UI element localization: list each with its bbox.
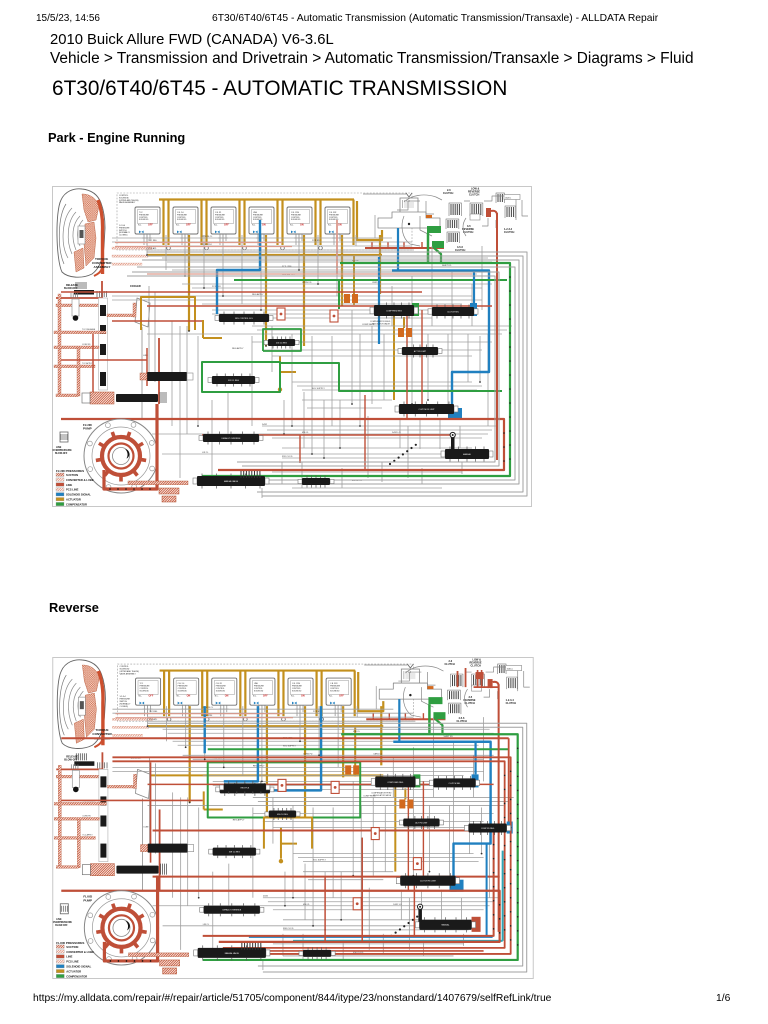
svg-text:ACT FD LIMIT: ACT FD LIMIT bbox=[414, 349, 427, 352]
svg-text:SOLENOID SIGNAL: SOLENOID SIGNAL bbox=[66, 965, 91, 969]
svg-text:CLUTCH: CLUTCH bbox=[444, 663, 454, 666]
svg-text:SOL SUPPLY: SOL SUPPLY bbox=[283, 745, 296, 747]
svg-text:CLUTCH FD LIMIT: CLUTCH FD LIMIT bbox=[418, 408, 435, 410]
svg-text:N.L.: N.L. bbox=[253, 696, 257, 698]
svg-text:CONVERTER & LUBE: CONVERTER & LUBE bbox=[66, 477, 94, 481]
svg-text:ON: ON bbox=[262, 223, 266, 226]
svg-text:MANUAL: MANUAL bbox=[463, 452, 471, 455]
svg-text:OVERPRESSURE: OVERPRESSURE bbox=[53, 450, 73, 452]
svg-text:SOLENOID: SOLENOID bbox=[291, 219, 301, 221]
svg-text:TCC APL: TCC APL bbox=[148, 247, 158, 250]
svg-text:SOL SUPPLY: SOL SUPPLY bbox=[312, 388, 325, 390]
svg-text:456 CL: 456 CL bbox=[302, 432, 310, 434]
svg-text:PCS LINE: PCS LINE bbox=[66, 960, 79, 964]
svg-text:PUMP: PUMP bbox=[83, 898, 92, 902]
svg-text:SOLENOID: SOLENOID bbox=[139, 219, 149, 221]
svg-text:SOLENOID: SOLENOID bbox=[215, 219, 225, 221]
svg-text:D432: D432 bbox=[262, 424, 268, 426]
svg-text:SOLENOID: SOLENOID bbox=[254, 690, 264, 692]
svg-text:N.L.: N.L. bbox=[291, 696, 295, 698]
svg-text:LINE: LINE bbox=[66, 955, 72, 959]
svg-text:N.L.: N.L. bbox=[138, 224, 142, 226]
svg-text:N.L.: N.L. bbox=[328, 224, 332, 226]
svg-text:CLOSED): CLOSED) bbox=[119, 706, 128, 708]
svg-text:CLUTCH FD LIMIT: CLUTCH FD LIMIT bbox=[420, 881, 437, 883]
svg-text:COMP FEED REG: COMP FEED REG bbox=[386, 310, 402, 312]
svg-text:BLOW-OFF: BLOW-OFF bbox=[55, 925, 68, 927]
svg-text:MANUAL VALVE: MANUAL VALVE bbox=[225, 952, 240, 955]
svg-text:TCC APL: TCC APL bbox=[149, 718, 159, 721]
svg-text:VALVE ASSEMBLY: VALVE ASSEMBLY bbox=[119, 201, 136, 204]
svg-text:N.L.: N.L. bbox=[214, 224, 218, 226]
svg-text:N.L.: N.L. bbox=[252, 224, 256, 226]
svg-text:SUCTION: SUCTION bbox=[66, 473, 78, 477]
svg-text:L/R CL: L/R CL bbox=[202, 452, 209, 454]
svg-text:SOLENOID: SOLENOID bbox=[178, 690, 188, 692]
svg-text:COMP FD REG: COMP FD REG bbox=[481, 828, 495, 830]
svg-text:CLUTCH: CLUTCH bbox=[504, 231, 514, 234]
svg-text:N.L.: N.L. bbox=[290, 224, 294, 226]
svg-text:REV CONTROL SOL: REV CONTROL SOL bbox=[235, 317, 253, 319]
svg-text:456 CL: 456 CL bbox=[303, 904, 311, 906]
svg-text:CONV FD: CONV FD bbox=[302, 282, 312, 284]
svg-text:N.L.: N.L. bbox=[329, 696, 333, 698]
svg-text:PCS LINE: PCS LINE bbox=[66, 487, 79, 491]
svg-text:L/R CL: L/R CL bbox=[203, 924, 210, 926]
svg-text:D432: D432 bbox=[263, 896, 269, 898]
svg-text:TCC REL: TCC REL bbox=[149, 711, 159, 713]
svg-text:VALVE ASSEMBLY: VALVE ASSEMBLY bbox=[119, 672, 136, 675]
svg-text:REGULATOR VALVE: REGULATOR VALVE bbox=[372, 322, 391, 325]
svg-text:MANUAL VALVE: MANUAL VALVE bbox=[224, 479, 239, 482]
svg-text:OFF: OFF bbox=[148, 223, 153, 226]
svg-text:CLOSED): CLOSED) bbox=[119, 234, 128, 236]
svg-text:COMP FEED REG: COMP FEED REG bbox=[387, 782, 403, 784]
svg-text:CLUTCH: CLUTCH bbox=[471, 665, 481, 668]
svg-text:BLOW-OFF: BLOW-OFF bbox=[64, 758, 78, 761]
svg-text:OFF: OFF bbox=[224, 223, 229, 226]
svg-text:ON: ON bbox=[300, 223, 304, 226]
svg-text:CLUTCH: CLUTCH bbox=[443, 192, 453, 195]
svg-text:SOLENOID SIGNAL: SOLENOID SIGNAL bbox=[66, 492, 91, 496]
svg-text:COMPENSATOR: COMPENSATOR bbox=[66, 502, 87, 506]
svg-text:LINE: LINE bbox=[56, 447, 62, 449]
svg-text:ON: ON bbox=[338, 223, 342, 226]
svg-text:SOL SUPPLY: SOL SUPPLY bbox=[313, 860, 326, 862]
svg-text:CLUTCH: CLUTCH bbox=[506, 702, 516, 705]
svg-text:35R CL REG: 35R CL REG bbox=[228, 379, 239, 381]
svg-text:SUCTION: SUCTION bbox=[66, 945, 78, 949]
svg-text:TCC RELEASE: TCC RELEASE bbox=[82, 328, 96, 331]
svg-text:PCS R1: PCS R1 bbox=[312, 240, 320, 242]
svg-text:LUBE: LUBE bbox=[143, 355, 149, 357]
svg-text:PCS 1234: PCS 1234 bbox=[202, 244, 212, 246]
svg-text:SOLENOID: SOLENOID bbox=[253, 219, 263, 221]
svg-text:35R CL FD: 35R CL FD bbox=[283, 928, 294, 930]
svg-text:SOLENOID: SOLENOID bbox=[140, 690, 150, 692]
svg-text:TCC APPLY: TCC APPLY bbox=[82, 362, 93, 365]
svg-text:BLOW-OFF: BLOW-OFF bbox=[64, 287, 78, 290]
svg-text:ON: ON bbox=[225, 695, 229, 698]
svg-text:CONVERTER & LUBE: CONVERTER & LUBE bbox=[66, 950, 94, 954]
svg-text:ACT FD LIMIT: ACT FD LIMIT bbox=[415, 821, 428, 824]
svg-text:DEFAULT OVERRIDE: DEFAULT OVERRIDE bbox=[222, 436, 241, 439]
svg-text:456 CL: 456 CL bbox=[353, 731, 361, 733]
svg-text:REG APPLY: REG APPLY bbox=[252, 293, 264, 296]
svg-text:CLUTCH SEL: CLUTCH SEL bbox=[449, 783, 461, 785]
svg-text:REG PCS: REG PCS bbox=[241, 787, 250, 789]
svg-text:CLUTCH: CLUTCH bbox=[469, 193, 479, 196]
svg-text:ON: ON bbox=[187, 695, 191, 698]
svg-text:D432 LO: D432 LO bbox=[393, 904, 402, 906]
svg-text:OVERPRESSURE: OVERPRESSURE bbox=[53, 922, 73, 924]
svg-text:PCS 26 CL: PCS 26 CL bbox=[202, 236, 213, 238]
svg-text:COMPENSATOR: COMPENSATOR bbox=[66, 974, 87, 978]
svg-text:SOLENOID: SOLENOID bbox=[216, 690, 226, 692]
svg-text:COOLER: COOLER bbox=[130, 285, 141, 288]
svg-text:TCC REL: TCC REL bbox=[148, 240, 158, 242]
svg-text:LUBE: LUBE bbox=[144, 827, 150, 829]
svg-text:CONV FD: CONV FD bbox=[82, 815, 91, 817]
svg-text:TCC APPLY: TCC APPLY bbox=[82, 834, 93, 837]
svg-text:MANUAL: MANUAL bbox=[442, 924, 450, 927]
svg-text:456 CL REG: 456 CL REG bbox=[276, 342, 287, 344]
svg-text:ACTUATOR: ACTUATOR bbox=[66, 497, 81, 501]
svg-text:REGULATOR VALVE: REGULATOR VALVE bbox=[373, 794, 392, 797]
svg-text:ACTUATOR: ACTUATOR bbox=[66, 969, 81, 973]
svg-text:LINE: LINE bbox=[66, 482, 72, 486]
svg-text:SOLENOID: SOLENOID bbox=[292, 690, 302, 692]
svg-text:LINE: LINE bbox=[56, 919, 62, 921]
svg-text:DEFAULT OVERRIDE: DEFAULT OVERRIDE bbox=[222, 909, 241, 912]
svg-text:CBR1 CL: CBR1 CL bbox=[372, 282, 382, 284]
svg-text:OFF: OFF bbox=[339, 695, 344, 698]
svg-text:CBR1 CL: CBR1 CL bbox=[373, 753, 383, 755]
svg-text:ASSEMBLY: ASSEMBLY bbox=[94, 265, 112, 269]
svg-text:N.L.: N.L. bbox=[177, 696, 181, 698]
svg-text:SOLENOID: SOLENOID bbox=[330, 690, 340, 692]
svg-text:SOLENOID: SOLENOID bbox=[177, 219, 187, 221]
svg-text:OFF: OFF bbox=[149, 695, 154, 698]
svg-text:CLUTCH SEL: CLUTCH SEL bbox=[447, 311, 459, 313]
svg-text:D432 LO: D432 LO bbox=[392, 432, 401, 434]
svg-text:OFF: OFF bbox=[263, 695, 268, 698]
svg-text:ON: ON bbox=[301, 695, 305, 698]
svg-text:FLUID PRESSURES: FLUID PRESSURES bbox=[56, 941, 84, 945]
svg-text:PUMP: PUMP bbox=[83, 426, 92, 430]
svg-text:N.L.: N.L. bbox=[139, 696, 143, 698]
svg-text:OFF: OFF bbox=[186, 223, 191, 226]
svg-text:BLOW-OFF: BLOW-OFF bbox=[55, 453, 68, 455]
svg-text:REG APPLY: REG APPLY bbox=[233, 819, 245, 822]
svg-text:CONV FD: CONV FD bbox=[82, 344, 91, 346]
svg-text:REG APPLY: REG APPLY bbox=[232, 347, 244, 350]
svg-text:35R CL REG: 35R CL REG bbox=[229, 852, 240, 854]
svg-text:N.L.: N.L. bbox=[215, 696, 219, 698]
svg-text:456 CL REG: 456 CL REG bbox=[277, 814, 288, 816]
svg-text:CONV FD: CONV FD bbox=[303, 753, 313, 755]
svg-text:35R CL FD: 35R CL FD bbox=[282, 456, 293, 458]
svg-text:N.L.: N.L. bbox=[176, 224, 180, 226]
svg-text:FLUID PRESSURES: FLUID PRESSURES bbox=[56, 469, 84, 473]
